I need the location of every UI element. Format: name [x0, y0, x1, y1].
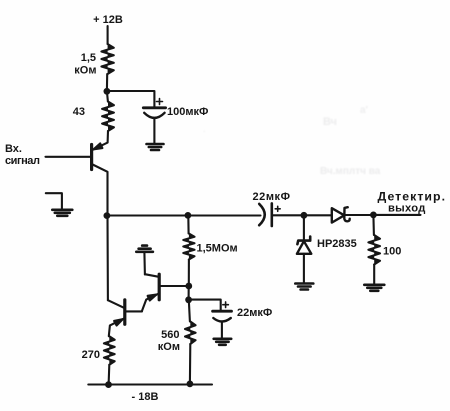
svg-text:кОм: кОм [158, 341, 180, 353]
svg-text:Вч.мплтч ва: Вч.мплтч ва [320, 166, 381, 177]
transistor Q1 emitter lead [93, 131, 108, 150]
diode D2 cathode bar with hook [344, 207, 349, 221]
capacitor C3 plus sign [275, 206, 280, 211]
transistor Q3 bar [123, 300, 126, 325]
svg-text:+ 12В: + 12В [93, 14, 123, 26]
label C3 value 22uF [253, 191, 291, 203]
transistor Q2 base wire to node D [160, 285, 188, 287]
resistor R5 270 ohm [104, 336, 115, 365]
wire node B down to Q3 collector [106, 216, 109, 301]
rail junction dot I [187, 381, 194, 388]
capacitor C3 22uF curved plate [259, 204, 265, 225]
node C junction dot [185, 212, 192, 219]
svg-text:кОм: кОм [74, 65, 96, 77]
transistor Q2 bar [158, 274, 161, 300]
svg-text:НР2835: НР2835 [317, 238, 357, 250]
wire node E to C4 [189, 300, 221, 311]
svg-text:43: 43 [73, 106, 85, 118]
label R5 value 270 [82, 349, 100, 361]
svg-text:1,5МОм: 1,5МОм [197, 243, 238, 255]
wire R5 to rail [108, 365, 111, 385]
wire node F to D1 [303, 215, 305, 239]
label R2 value 43 [73, 106, 85, 118]
ground G2 bars [52, 210, 72, 216]
node G junction dot [370, 212, 377, 219]
node D junction dot [185, 283, 192, 290]
label -18V [132, 391, 159, 403]
transistor Q2 collector lead [145, 274, 159, 277]
label C4 value 22uF [237, 307, 272, 319]
wire node C to R3 [187, 216, 189, 234]
wire R4 to rail [189, 344, 192, 384]
svg-text:100мкФ: 100мкФ [167, 106, 208, 118]
svg-text:22мкФ: 22мкФ [253, 191, 291, 203]
node A junction dot [104, 88, 111, 95]
wire node D to node E [188, 286, 190, 300]
resistor R3 1.5 MOhm [183, 234, 194, 260]
wire node F to D2 [304, 214, 332, 216]
svg-text:Вч: Вч [323, 116, 337, 128]
label R6 value 100 [383, 246, 401, 258]
wire ground G3 to Q2 collector [143, 252, 146, 274]
ground G1 for C1 [147, 144, 164, 150]
label R3 value 1,5 MOm [197, 243, 238, 255]
capacitor C1 100uF top plate [143, 106, 165, 109]
resistor R1 1.5 kOhm [101, 44, 113, 74]
label C1 value 100uF [167, 106, 208, 118]
mid rail wire node B to C3 [107, 214, 261, 216]
svg-text:1,5: 1,5 [81, 52, 96, 64]
output label Detektir vykhod [378, 190, 447, 215]
wire C4 to ground [221, 323, 223, 339]
svg-text:270: 270 [82, 349, 100, 361]
resistor R2 43 ohm [102, 102, 114, 132]
wire C3 to node F [273, 214, 304, 216]
node B junction dot [104, 212, 111, 219]
ground G3 bars above Q2 collector [136, 246, 153, 252]
capacitor C4 22uF curved plate [213, 318, 231, 322]
svg-text:560: 560 [161, 329, 179, 341]
svg-text:.: . [203, 124, 206, 134]
+12V supply label [93, 14, 123, 26]
wire node G to R6 [372, 215, 375, 235]
transistor Q1 collector lead [93, 165, 108, 214]
transistor Q3 emitter lead [109, 318, 125, 336]
capacitor C3 22uF straight plate [270, 203, 273, 226]
capacitor C4 plus sign [223, 302, 229, 308]
svg-text:22мкФ: 22мкФ [237, 307, 272, 319]
negative supply rail -18V [88, 383, 212, 385]
wire +12V to R1 [107, 26, 109, 44]
capacitor C1 plus sign [157, 99, 163, 105]
resistor R6 100 ohm [368, 235, 380, 265]
input label Vkh signal [5, 143, 40, 167]
wire D1 to ground [303, 254, 305, 283]
capacitor C1 100uF curved plate [144, 113, 164, 118]
resistor R4 560 kOhm [185, 322, 196, 345]
wire node E to R4 [189, 300, 190, 322]
ground G6 for C4 [214, 339, 232, 345]
ground G4 for D1 [295, 284, 313, 290]
rail junction dot H [105, 381, 112, 388]
transistor Q1 bar [90, 145, 93, 170]
diode D1 triangle [297, 241, 311, 254]
svg-text:а': а' [360, 105, 368, 116]
svg-text:Вх.: Вх. [5, 143, 22, 155]
node F junction dot [301, 212, 308, 219]
capacitor C4 22uF top plate [213, 310, 232, 313]
wire C1 to ground [153, 119, 155, 144]
diode D2 triangle [332, 208, 345, 222]
label D1 HP2835 [317, 238, 357, 250]
wire R6 to ground [373, 265, 375, 285]
svg-text:сигнал: сигнал [5, 155, 40, 167]
transistor Q3 collector lead [108, 300, 125, 308]
output wire [373, 214, 420, 216]
wire R3 to node D [188, 260, 190, 287]
wire R1 to node A [106, 74, 108, 91]
transistor Q1 base wire from input [46, 156, 92, 158]
wire Q2 emitter to Q3 base [126, 310, 143, 312]
wire node A to C1 [107, 91, 154, 107]
label R1 value 1,5 kOm [74, 52, 96, 77]
wire D2 to node G [345, 214, 373, 216]
svg-text:- 18В: - 18В [132, 391, 159, 403]
ground G2 input reference arm [46, 193, 62, 209]
svg-text:100: 100 [383, 246, 401, 258]
svg-text:выход: выход [388, 202, 426, 214]
node E junction dot [185, 296, 192, 303]
diode D1 cathode bar with ticks [297, 237, 310, 245]
label R4 value 560 kOm [158, 329, 180, 353]
transistor Q2 emitter lead [142, 293, 160, 311]
wire node A to R2 [107, 91, 108, 101]
faint print bleed-through marks [203, 105, 381, 177]
ground G5 for R6 [364, 285, 384, 291]
